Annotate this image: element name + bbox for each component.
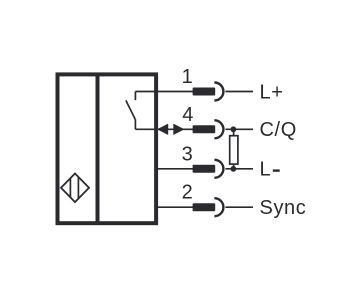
svg-text:2: 2 <box>182 182 193 204</box>
svg-text:4: 4 <box>182 104 193 126</box>
svg-text:1: 1 <box>182 66 193 88</box>
svg-text:L: L <box>260 159 272 181</box>
svg-text:L+: L+ <box>260 81 284 103</box>
svg-text:Sync: Sync <box>260 197 307 219</box>
svg-text:C/Q: C/Q <box>260 119 297 141</box>
svg-text:3: 3 <box>182 143 193 165</box>
